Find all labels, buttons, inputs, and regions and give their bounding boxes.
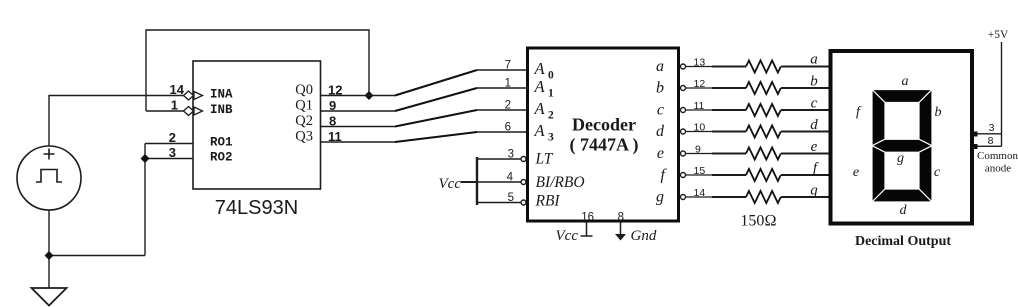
svg-text:3: 3 — [548, 132, 554, 144]
svg-text:d: d — [656, 123, 665, 140]
svg-text:d: d — [810, 117, 818, 133]
svg-text:A: A — [534, 59, 546, 78]
svg-text:LT: LT — [535, 151, 554, 168]
svg-text:3: 3 — [508, 149, 514, 161]
svg-text:3: 3 — [169, 145, 176, 160]
svg-text:a: a — [656, 58, 664, 75]
svg-text:Q3: Q3 — [295, 129, 313, 145]
svg-text:Vcc: Vcc — [556, 228, 579, 244]
svg-text:10: 10 — [694, 122, 706, 134]
svg-text:14: 14 — [170, 82, 185, 97]
svg-text:c: c — [657, 102, 664, 119]
svg-text:A: A — [534, 77, 546, 96]
svg-text:8: 8 — [988, 135, 994, 147]
svg-text:3: 3 — [989, 122, 995, 134]
svg-text:7: 7 — [505, 60, 511, 72]
svg-text:12: 12 — [328, 83, 342, 98]
svg-text:16: 16 — [581, 212, 594, 224]
svg-text:Gnd: Gnd — [631, 228, 657, 244]
svg-text:Common: Common — [977, 150, 1018, 162]
svg-text:b: b — [935, 105, 942, 120]
svg-text:6: 6 — [505, 122, 511, 134]
svg-text:5: 5 — [508, 192, 514, 204]
svg-text:150Ω: 150Ω — [740, 213, 776, 230]
svg-text:8: 8 — [329, 114, 336, 129]
svg-text:g: g — [810, 183, 818, 199]
svg-text:a: a — [902, 74, 909, 89]
svg-text:+5V: +5V — [988, 29, 1009, 41]
svg-text:e: e — [657, 145, 664, 162]
svg-text:g: g — [656, 189, 664, 206]
svg-text:2: 2 — [169, 130, 176, 145]
svg-text:BI/RBO: BI/RBO — [536, 174, 585, 191]
svg-text:8: 8 — [618, 212, 624, 224]
svg-text:15: 15 — [694, 165, 706, 177]
svg-text:Q2: Q2 — [295, 113, 313, 129]
svg-text:A: A — [534, 99, 546, 118]
svg-text:A: A — [534, 121, 546, 140]
svg-text:( 7447A ): ( 7447A ) — [570, 135, 639, 156]
svg-text:RO1: RO1 — [210, 136, 233, 150]
svg-text:9: 9 — [695, 144, 701, 156]
svg-text:0: 0 — [548, 70, 554, 82]
svg-text:g: g — [897, 151, 904, 166]
svg-text:b: b — [810, 74, 818, 90]
svg-text:4: 4 — [507, 172, 514, 184]
svg-text:c: c — [934, 165, 941, 180]
svg-text:13: 13 — [694, 57, 706, 69]
svg-text:Vcc: Vcc — [439, 176, 462, 192]
svg-text:b: b — [656, 80, 664, 97]
svg-text:74LS93N: 74LS93N — [215, 197, 298, 219]
svg-text:1: 1 — [505, 78, 511, 90]
svg-text:12: 12 — [694, 78, 706, 90]
svg-text:9: 9 — [329, 98, 336, 113]
svg-text:RO2: RO2 — [210, 151, 233, 165]
svg-text:a: a — [810, 52, 818, 68]
svg-text:1: 1 — [548, 88, 554, 100]
svg-text:anode: anode — [985, 163, 1011, 175]
svg-text:2: 2 — [505, 100, 511, 112]
svg-text:11: 11 — [694, 100, 705, 112]
svg-text:Q0: Q0 — [295, 82, 313, 98]
svg-text:INB: INB — [210, 103, 233, 117]
svg-text:Decoder: Decoder — [572, 115, 636, 135]
svg-text:INA: INA — [210, 88, 233, 102]
svg-text:e: e — [853, 165, 859, 180]
svg-text:e: e — [811, 139, 818, 155]
svg-text:14: 14 — [694, 187, 706, 199]
svg-text:2: 2 — [548, 110, 554, 122]
svg-text:Q1: Q1 — [295, 98, 313, 114]
svg-text:d: d — [900, 203, 908, 218]
svg-text:1: 1 — [171, 98, 178, 113]
svg-text:Decimal Output: Decimal Output — [855, 234, 951, 249]
svg-text:11: 11 — [328, 129, 342, 144]
svg-text:c: c — [811, 96, 818, 112]
svg-text:RBI: RBI — [535, 193, 561, 210]
